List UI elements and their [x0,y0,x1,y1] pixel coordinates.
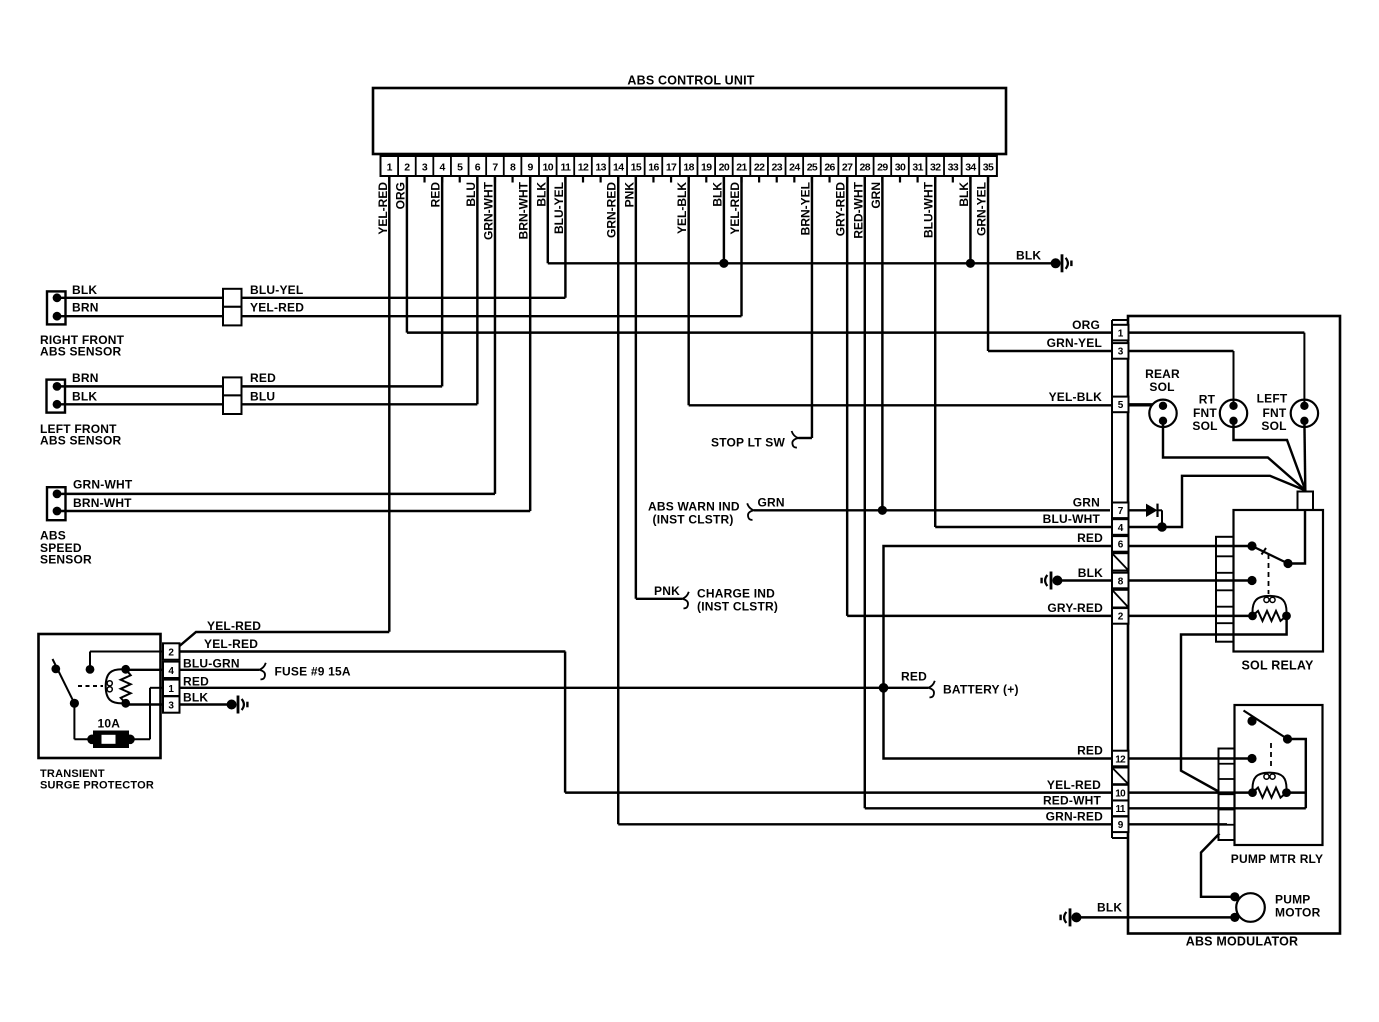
svg-text:24: 24 [789,162,800,174]
wire YEL-RED TSP t2 to modulator pin 10 [180,637,566,652]
svg-text:BLK: BLK [710,182,724,207]
svg-text:GRN-RED: GRN-RED [1046,810,1104,824]
svg-text:16: 16 [648,162,659,174]
svg-text:4: 4 [440,162,446,174]
pump relay actuator dashed [1270,743,1272,769]
wire GRY-RED pin27 to modulator pin 2 [847,601,1252,616]
wire YEL-RED to modulator pin 10 [565,778,1252,793]
svg-text:BLU-GRN: BLU-GRN [183,657,240,671]
rear solenoid [1145,367,1180,427]
wire BLK TSP t3 to ground [180,691,228,705]
sol relay switch [1247,541,1292,568]
TSP coil wire to terminal 4 [126,669,163,671]
TSP terminal 3 [163,696,180,712]
svg-text:YEL-RED: YEL-RED [1047,778,1101,792]
modulator pin 12 [1112,751,1129,767]
wire YEL-BLK inside to rear sol [1128,403,1153,405]
svg-text:SOL: SOL [1149,380,1174,394]
wire pin 35 GRN-YEL vertical [975,176,989,351]
wire GRN inside pin 7 [1128,509,1146,511]
sol relay actuator dashed [1268,554,1270,594]
svg-text:RED-WHT: RED-WHT [851,181,865,238]
ABS warn ind callout + wire GRN [648,496,1110,527]
sol relay terminal strip [1216,537,1234,642]
RT FNT solenoid [1192,393,1247,434]
svg-text:GRN: GRN [869,182,883,209]
svg-text:5: 5 [457,162,463,174]
junction pin34 on BLK bus [966,259,975,268]
svg-text:19: 19 [701,162,712,174]
svg-text:10: 10 [1115,788,1126,799]
svg-text:BRN-WHT: BRN-WHT [517,181,531,239]
svg-text:SENSOR: SENSOR [40,553,92,567]
battery feed junction + callout [879,670,1019,698]
svg-text:RED: RED [1077,531,1103,545]
svg-text:6: 6 [475,162,481,174]
svg-text:1: 1 [168,684,174,695]
wire YEL-RED TSP t2 to pin 1 [180,619,390,646]
svg-text:SOL: SOL [1192,419,1217,433]
svg-text:BLK: BLK [1097,901,1122,915]
TSP fuse 10A [74,688,163,748]
modulator pin 3 [1112,343,1129,359]
wire GRN-RED pin14 to modulator pin 9 [618,810,1227,825]
wire pin 21 YEL-RED vertical [728,176,742,316]
svg-text:TRANSIENT: TRANSIENT [40,768,105,780]
svg-text:2: 2 [404,162,410,174]
wire BLK / BLU left front sensor [57,390,477,405]
TSP coil wire to terminal 3 [126,703,163,704]
ground G1 top right [1051,254,1073,272]
wire ORG pin2 to modulator pin 1 [407,318,1304,333]
wire BRN-WHT speed sensor [57,496,530,511]
svg-text:(INST CLSTR): (INST CLSTR) [653,513,734,527]
svg-text:FNT: FNT [1193,406,1217,420]
svg-text:RT: RT [1199,393,1216,407]
svg-text:GRN-YEL: GRN-YEL [975,182,989,236]
wire pin 25 BRN-YEL vertical [798,176,812,438]
modulator pin 8 [1112,573,1129,589]
svg-text:ORG: ORG [393,182,407,209]
svg-text:SOL: SOL [1261,419,1286,433]
right front ABS sensor connector [40,291,125,358]
TSP dashed actuator link [78,685,103,687]
svg-text:YEL-RED: YEL-RED [728,182,742,235]
inline connector right front [223,289,242,326]
svg-text:BRN-YEL: BRN-YEL [798,182,812,235]
TSP terminal 4 [163,662,180,678]
inline connector left front [223,377,242,414]
wire GRN-WHT speed sensor [57,478,495,494]
svg-text:17: 17 [666,162,677,174]
transient surge protector box [39,634,161,792]
wire pin 2 ORG vertical [393,176,407,333]
pump relay switch [1244,711,1293,744]
svg-text:BLU: BLU [464,182,478,207]
wire pump relay output RED-WHT [1288,739,1306,808]
svg-text:14: 14 [613,162,624,174]
wire pin 34 BLK vertical [957,176,971,263]
wire pin 7 GRN-WHT vertical [481,176,495,494]
svg-text:BRN: BRN [72,371,99,385]
svg-text:31: 31 [912,162,923,174]
pump motor [1230,892,1320,922]
svg-text:ABS SENSOR: ABS SENSOR [40,434,121,448]
svg-text:3: 3 [422,162,428,174]
modulator pin 4 [1112,519,1129,535]
wire pin 28 RED-WHT vertical [851,176,865,808]
svg-text:BLK: BLK [72,390,97,404]
svg-text:BLK: BLK [1078,566,1103,580]
wire BLK / BLU-YEL right front sensor [57,283,565,298]
wire pin 14 GRN-RED vertical [605,176,619,824]
wire BLU-GRN TSP t4 to fuse #9 [180,657,351,680]
modulator unused pin slash 1 [1112,553,1129,570]
svg-text:GRN-YEL: GRN-YEL [1047,336,1102,350]
svg-text:FNT: FNT [1263,406,1287,420]
wire pin 11 BLU-YEL vertical [552,176,566,298]
wire BLU-WHT pin32 to modulator pin 4 [935,512,1162,527]
modulator unused pin slash 2 [1112,590,1129,608]
svg-text:30: 30 [895,162,906,174]
svg-text:15: 15 [631,162,642,174]
svg-text:BATTERY (+): BATTERY (+) [943,683,1019,697]
wire GRN-YEL inside to RT FNT sol [1233,351,1235,406]
svg-text:(INST CLSTR): (INST CLSTR) [697,600,778,614]
wire LEFT FNT sol return [1303,421,1306,491]
modulator pin 2 [1112,608,1129,624]
svg-text:BRN: BRN [72,301,99,315]
svg-text:2: 2 [168,648,174,659]
svg-text:26: 26 [824,162,835,174]
wire pin 29 GRN vertical [869,176,883,510]
svg-text:YEL-RED: YEL-RED [376,182,390,235]
wire pin 15 PNK vertical [622,176,636,599]
wire YEL-RED vertical x565 [564,652,566,793]
svg-text:PNK: PNK [654,584,680,598]
TSP terminal 1 [163,680,180,696]
svg-text:BLU-WHT: BLU-WHT [922,181,936,238]
svg-text:ABS CONTROL UNIT: ABS CONTROL UNIT [627,74,754,88]
svg-text:35: 35 [983,162,994,174]
svg-text:RED: RED [429,182,443,208]
svg-text:GRN-WHT: GRN-WHT [73,478,133,492]
svg-text:BLK: BLK [1016,249,1041,263]
wire GRN-YEL pin35 to modulator pin 3 [988,336,1233,351]
wire rear sol return [1163,421,1306,491]
wire pin 27 GRY-RED vertical [834,176,848,616]
svg-text:23: 23 [771,162,782,174]
charge ind callout wire PNK [636,584,778,614]
ground G3 modulator pin 8 [1040,572,1062,590]
wire pin 9 BRN-WHT vertical [517,176,531,511]
svg-text:18: 18 [683,162,694,174]
junction pin29 GRN [878,506,887,515]
svg-text:ABS MODULATOR: ABS MODULATOR [1186,935,1299,949]
wire BRN / YEL-RED right front sensor [57,301,742,317]
left front ABS sensor connector [40,380,121,448]
svg-text:RED: RED [183,675,209,689]
wire pin 4 RED vertical [429,176,443,386]
svg-text:MOTOR: MOTOR [1275,906,1321,920]
svg-text:GRN-RED: GRN-RED [605,182,619,238]
junction pin20 on BLK bus [719,259,728,268]
svg-text:FUSE #9 15A: FUSE #9 15A [275,665,351,679]
svg-text:34: 34 [965,162,976,174]
wire sol relay NC BLK contact [1247,576,1256,585]
svg-text:SOL RELAY: SOL RELAY [1242,659,1314,673]
svg-text:BLK: BLK [957,182,971,207]
svg-text:YEL-BLK: YEL-BLK [1049,390,1103,404]
modulator pin 10 [1112,785,1129,801]
modulator pin 1 [1112,325,1129,341]
svg-text:10: 10 [543,162,554,174]
svg-text:32: 32 [930,162,941,174]
svg-text:ABS SENSOR: ABS SENSOR [40,345,121,359]
svg-text:7: 7 [492,162,498,174]
diode D1 [1146,504,1162,527]
svg-text:CHARGE IND: CHARGE IND [697,587,775,601]
svg-text:3: 3 [168,701,174,712]
TSP coil [106,665,131,708]
svg-text:BRN-WHT: BRN-WHT [73,496,132,510]
pump relay terminal strip [1219,749,1235,841]
svg-text:27: 27 [842,162,853,174]
svg-text:PUMP MTR RLY: PUMP MTR RLY [1231,852,1323,866]
sol relay box [1234,510,1324,673]
svg-text:BLU-YEL: BLU-YEL [250,283,303,297]
wire pin 10 BLK vertical [534,176,548,263]
LEFT FNT solenoid [1257,392,1318,434]
ABS modulator box [1128,316,1340,949]
ABS control unit box [373,74,1006,155]
pump relay feed contact [1247,754,1256,763]
modulator unused pin slash 3 [1112,768,1129,785]
pump motor relay box [1231,705,1323,866]
svg-text:RED: RED [901,670,927,684]
wire BLK ground bus [548,249,1051,264]
svg-text:PUMP: PUMP [1275,893,1310,907]
modulator pin 5 [1112,397,1129,413]
wire pin 32 BLU-WHT vertical [922,176,936,527]
wire RT FNT sol return [1234,421,1306,491]
svg-text:22: 22 [754,162,765,174]
stop light switch callout [711,431,812,450]
svg-text:BLK: BLK [183,691,208,705]
modulator pin strip [1112,320,1128,838]
wire pin 6 BLU vertical [464,176,478,404]
svg-text:YEL-BLK: YEL-BLK [675,182,689,234]
wire pump relay to pump motor [1201,834,1235,897]
wire BLK pump motor ground [1081,901,1235,918]
wire RED battery to modulator pin 6 [884,531,1253,759]
wire BRN / RED left front sensor [57,371,442,386]
svg-text:GRN: GRN [1073,496,1100,510]
svg-text:9: 9 [528,162,534,174]
svg-text:10A: 10A [98,717,121,731]
svg-text:GRY-RED: GRY-RED [1047,601,1103,615]
svg-text:BLU-WHT: BLU-WHT [1043,512,1101,526]
svg-text:RED: RED [1077,744,1103,758]
svg-text:11: 11 [1116,804,1126,815]
svg-text:ORG: ORG [1072,318,1100,332]
svg-text:BLK: BLK [534,182,548,207]
svg-text:BLK: BLK [72,283,97,297]
svg-text:BLU: BLU [250,390,275,404]
ground G4 pump motor [1059,908,1081,926]
svg-text:25: 25 [807,162,818,174]
wire BLK ground to modulator pin 8 [1062,566,1252,581]
wire ORG inside to LEFT FNT sol [1303,333,1305,406]
wire YEL-BLK pin18 to modulator pin 5 [689,390,1151,405]
svg-text:GRN: GRN [758,496,785,510]
wire pump relay coil to common [1287,791,1306,793]
svg-text:PNK: PNK [622,182,636,208]
svg-text:11: 11 [560,162,571,174]
svg-text:12: 12 [1115,754,1126,765]
svg-text:RED-WHT: RED-WHT [1043,794,1102,808]
wire sol relay common to connector [1288,510,1305,564]
wire pin 20 BLK vertical [710,176,724,263]
pump relay coil [1248,773,1291,798]
svg-text:1: 1 [387,162,393,174]
wire pin 1 YEL-RED vertical [376,176,390,632]
ABS speed sensor connector [40,487,92,566]
modulator pin 9 [1112,817,1129,833]
svg-text:28: 28 [860,162,871,174]
svg-text:29: 29 [877,162,888,174]
ground G2 TSP [227,696,249,714]
svg-text:BLU-YEL: BLU-YEL [552,182,566,234]
svg-text:20: 20 [719,162,730,174]
wire pin 18 YEL-BLK vertical [675,176,689,405]
junction diode to BLU-WHT [1157,522,1167,532]
svg-text:GRN-WHT: GRN-WHT [481,181,495,240]
svg-text:12: 12 [578,162,589,174]
svg-text:STOP LT SW: STOP LT SW [711,436,785,450]
pin stubs [389,176,988,183]
solenoid common connector [1298,492,1314,511]
svg-text:YEL-RED: YEL-RED [250,301,304,315]
modulator pin 6 [1112,536,1129,552]
svg-text:ABS WARN IND: ABS WARN IND [648,500,740,514]
svg-text:LEFT: LEFT [1257,392,1288,406]
wire sol relay coil return [1181,616,1287,792]
svg-text:21: 21 [736,162,747,174]
sol relay coil [1248,596,1291,621]
svg-text:REAR: REAR [1145,367,1180,381]
TSP terminal 2 [163,643,180,659]
wire solenoid common from relay [1162,476,1306,527]
svg-text:GRY-RED: GRY-RED [834,182,848,237]
svg-text:8: 8 [510,162,516,174]
svg-text:YEL-RED: YEL-RED [207,619,261,633]
TSP switch contact to terminal 2 [86,652,163,674]
TSP relay switch [51,659,79,708]
svg-text:RED: RED [250,371,276,385]
wire RED TSP t1 to battery [180,675,884,689]
svg-text:SURGE PROTECTOR: SURGE PROTECTOR [40,780,154,792]
svg-text:YEL-RED: YEL-RED [204,637,258,651]
ABS control unit pin row pins 1-35 [381,156,997,176]
svg-text:13: 13 [595,162,606,174]
modulator pin 7 [1112,503,1129,519]
modulator pin 11 [1112,801,1129,817]
wire RED-WHT pin28 to modulator pin 11 [865,794,1306,809]
svg-text:4: 4 [168,666,174,677]
svg-text:33: 33 [948,162,959,174]
